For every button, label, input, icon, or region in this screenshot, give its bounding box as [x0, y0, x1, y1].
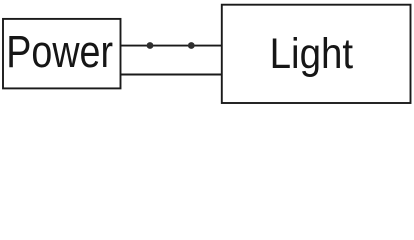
junction dot 1 on top wire	[147, 42, 154, 49]
svg-text:Light: Light	[270, 30, 354, 78]
wire bottom (Power to Light)	[121, 74, 222, 76]
svg-text:Power: Power	[6, 26, 113, 77]
wire top (Power to Light)	[121, 45, 222, 47]
block Light (box)	[222, 5, 411, 103]
block Power (box)	[3, 19, 121, 89]
junction dot 2 on top wire	[188, 42, 195, 49]
